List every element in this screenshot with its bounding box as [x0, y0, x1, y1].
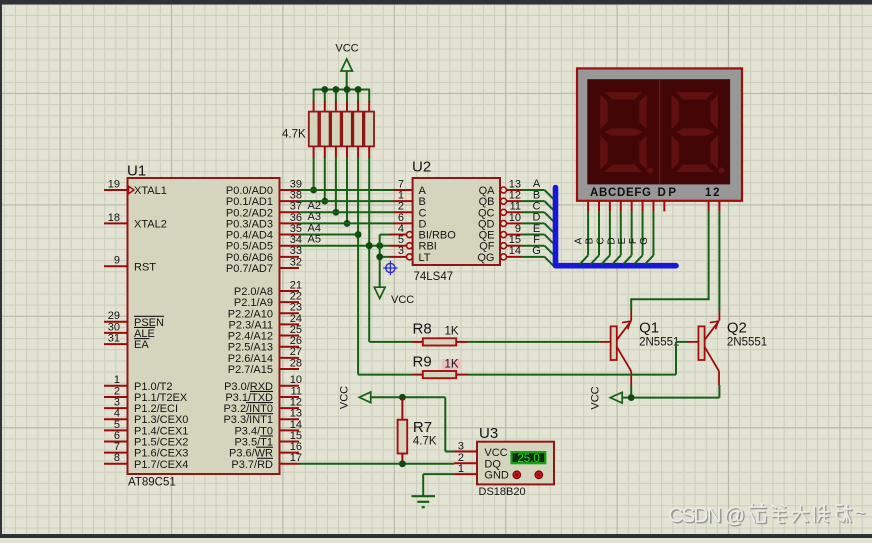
- svg-text:A5: A5: [308, 234, 321, 246]
- U3 pins 3,2,1: [454, 451, 477, 453]
- svg-text:EA: EA: [134, 339, 149, 351]
- wire net A3 vertical: [346, 157, 348, 223]
- svg-text:3: 3: [458, 440, 464, 452]
- svg-text:F: F: [628, 238, 639, 244]
- svg-text:ABCDEFG: ABCDEFG: [590, 187, 651, 199]
- svg-text:VCC: VCC: [590, 386, 602, 409]
- wire P0.4 stub to vertical: [299, 234, 358, 236]
- svg-text:RST: RST: [134, 261, 156, 273]
- wire P0.3 to U2 D: [299, 222, 393, 224]
- svg-text:B: B: [584, 237, 595, 244]
- svg-text:VCC: VCC: [335, 43, 358, 55]
- svg-text:DS18B20: DS18B20: [479, 486, 526, 498]
- svg-text:C: C: [595, 237, 606, 244]
- svg-text:9: 9: [114, 255, 120, 267]
- svg-text:25.0: 25.0: [517, 453, 539, 465]
- svg-text:DQ: DQ: [484, 458, 501, 470]
- svg-text:XTAL2: XTAL2: [134, 218, 167, 230]
- svg-text:18: 18: [108, 212, 120, 224]
- svg-text:P0.7/AD7: P0.7/AD7: [226, 263, 273, 275]
- svg-text:1 2: 1 2: [705, 187, 720, 199]
- svg-text:1K: 1K: [445, 358, 459, 370]
- svg-text:U3: U3: [479, 425, 498, 442]
- wire U2 BI/RBO + LT tie to VCC: [380, 234, 390, 236]
- IC U3 DS18B20: [477, 442, 554, 485]
- power flag VCC below U2: [374, 287, 385, 298]
- wire VCC bus above resistor pack: [314, 89, 370, 91]
- svg-text:XTAL1: XTAL1: [134, 185, 167, 197]
- svg-text:CSDN @: CSDN @: [668, 504, 745, 527]
- svg-text:R7: R7: [413, 419, 432, 436]
- wire Q1 base from R8: [468, 341, 600, 343]
- svg-text:8: 8: [114, 452, 120, 464]
- svg-text:30: 30: [108, 321, 120, 333]
- svg-text:QG: QG: [477, 252, 494, 264]
- svg-text:P3.7/RD: P3.7/RD: [231, 459, 273, 471]
- svg-text:P2.7/A15: P2.7/A15: [228, 364, 273, 376]
- svg-text:31: 31: [108, 333, 120, 345]
- U3 LCD readout 25.0: [512, 452, 546, 463]
- svg-text:14: 14: [509, 245, 521, 257]
- wire P0.2 to U2 C: [299, 211, 393, 213]
- wire Q2 base from R9: [468, 374, 677, 376]
- transistor Q1 2N5551: [611, 326, 617, 360]
- svg-text:28: 28: [290, 357, 302, 369]
- U3 indicator LEDs: [513, 471, 521, 479]
- U2 right pins QA-QG: [501, 187, 507, 193]
- wire VCC to U3 pin3: [371, 396, 446, 398]
- svg-text:U2: U2: [412, 159, 431, 176]
- wire net AD1 vertical: [324, 157, 326, 201]
- wire net A4 vertical (to R9): [357, 157, 359, 375]
- svg-text:A: A: [574, 237, 585, 244]
- svg-text:E: E: [617, 237, 628, 244]
- IC U2 74LS47: [413, 178, 500, 265]
- svg-text:~: ~: [854, 503, 865, 524]
- svg-text:2N5551: 2N5551: [727, 337, 767, 349]
- svg-text:VCC: VCC: [484, 447, 507, 459]
- svg-text:1K: 1K: [445, 325, 459, 337]
- svg-text:Q1: Q1: [639, 320, 659, 337]
- IC U1 AT89C51: [128, 178, 280, 474]
- ground: [412, 495, 436, 497]
- svg-text:Q2: Q2: [727, 320, 747, 337]
- svg-text:32: 32: [290, 256, 302, 268]
- wire net AD0 vertical: [313, 157, 315, 190]
- transistor Q2 2N5551: [698, 326, 704, 360]
- resistor R9 1K: [423, 371, 456, 378]
- svg-text:GND: GND: [484, 470, 509, 482]
- power flag VCC at emitters: [610, 392, 622, 403]
- svg-text:74LS47: 74LS47: [414, 271, 454, 283]
- wire U3 GND to ground: [423, 473, 454, 475]
- U1 right pins and numbers: [280, 189, 300, 191]
- svg-text:P1.7/CEX4: P1.7/CEX4: [134, 459, 188, 471]
- display digit 2 segments: [676, 92, 714, 99]
- display 7SEG-MPX2 body: [577, 68, 742, 200]
- svg-text:VCC: VCC: [339, 386, 351, 409]
- wire P0.0 to U2 A: [299, 189, 393, 191]
- resistor R8 1K: [423, 338, 456, 345]
- svg-text:LT: LT: [419, 252, 431, 264]
- svg-text:17: 17: [290, 452, 302, 464]
- display pins 1,2: [708, 201, 710, 212]
- wire P0.5 to U2 RBI: [299, 245, 390, 247]
- svg-text:D: D: [606, 237, 617, 244]
- wire P3.7/RD to U3 DQ: [299, 463, 454, 465]
- svg-text:R9: R9: [413, 353, 432, 370]
- wire display pin2 to Q2: [718, 211, 720, 310]
- resistor R7 4.7K: [401, 398, 403, 420]
- svg-text:19: 19: [108, 178, 120, 190]
- resistor pack 4.7K (6 resistors): [313, 101, 315, 113]
- svg-text:2N5551: 2N5551: [639, 337, 679, 349]
- display digit 1 segments: [605, 92, 643, 99]
- U2 left pins: [393, 189, 413, 191]
- svg-text:G: G: [639, 237, 650, 245]
- svg-text:AT89C51: AT89C51: [128, 477, 176, 489]
- svg-text:3: 3: [398, 245, 404, 257]
- svg-text:4.7K: 4.7K: [282, 129, 306, 141]
- display pins a-g,dp: [587, 201, 589, 212]
- wire net A5 vertical (to R8): [368, 157, 370, 342]
- power flag VCC near R7: [359, 392, 370, 403]
- wire net A2 vertical: [335, 157, 337, 212]
- wires QA-QG to bus: [522, 189, 545, 191]
- svg-text:1: 1: [458, 463, 464, 475]
- wires display segments to bus: [587, 211, 589, 255]
- svg-text:U1: U1: [127, 163, 146, 180]
- power flag VCC top: [346, 71, 348, 90]
- wire display pin1 to Q1: [631, 211, 708, 310]
- bus (blue): [556, 188, 677, 266]
- svg-text:R8: R8: [413, 321, 432, 338]
- origin marker: [386, 263, 395, 272]
- svg-text:4.7K: 4.7K: [413, 436, 437, 448]
- svg-text:G: G: [532, 245, 541, 257]
- U1 left pins and numbers: [104, 189, 128, 191]
- wire emitters to VCC: [622, 397, 719, 399]
- wire P0.1 to U2 B: [299, 200, 393, 202]
- svg-text:VCC: VCC: [391, 294, 414, 306]
